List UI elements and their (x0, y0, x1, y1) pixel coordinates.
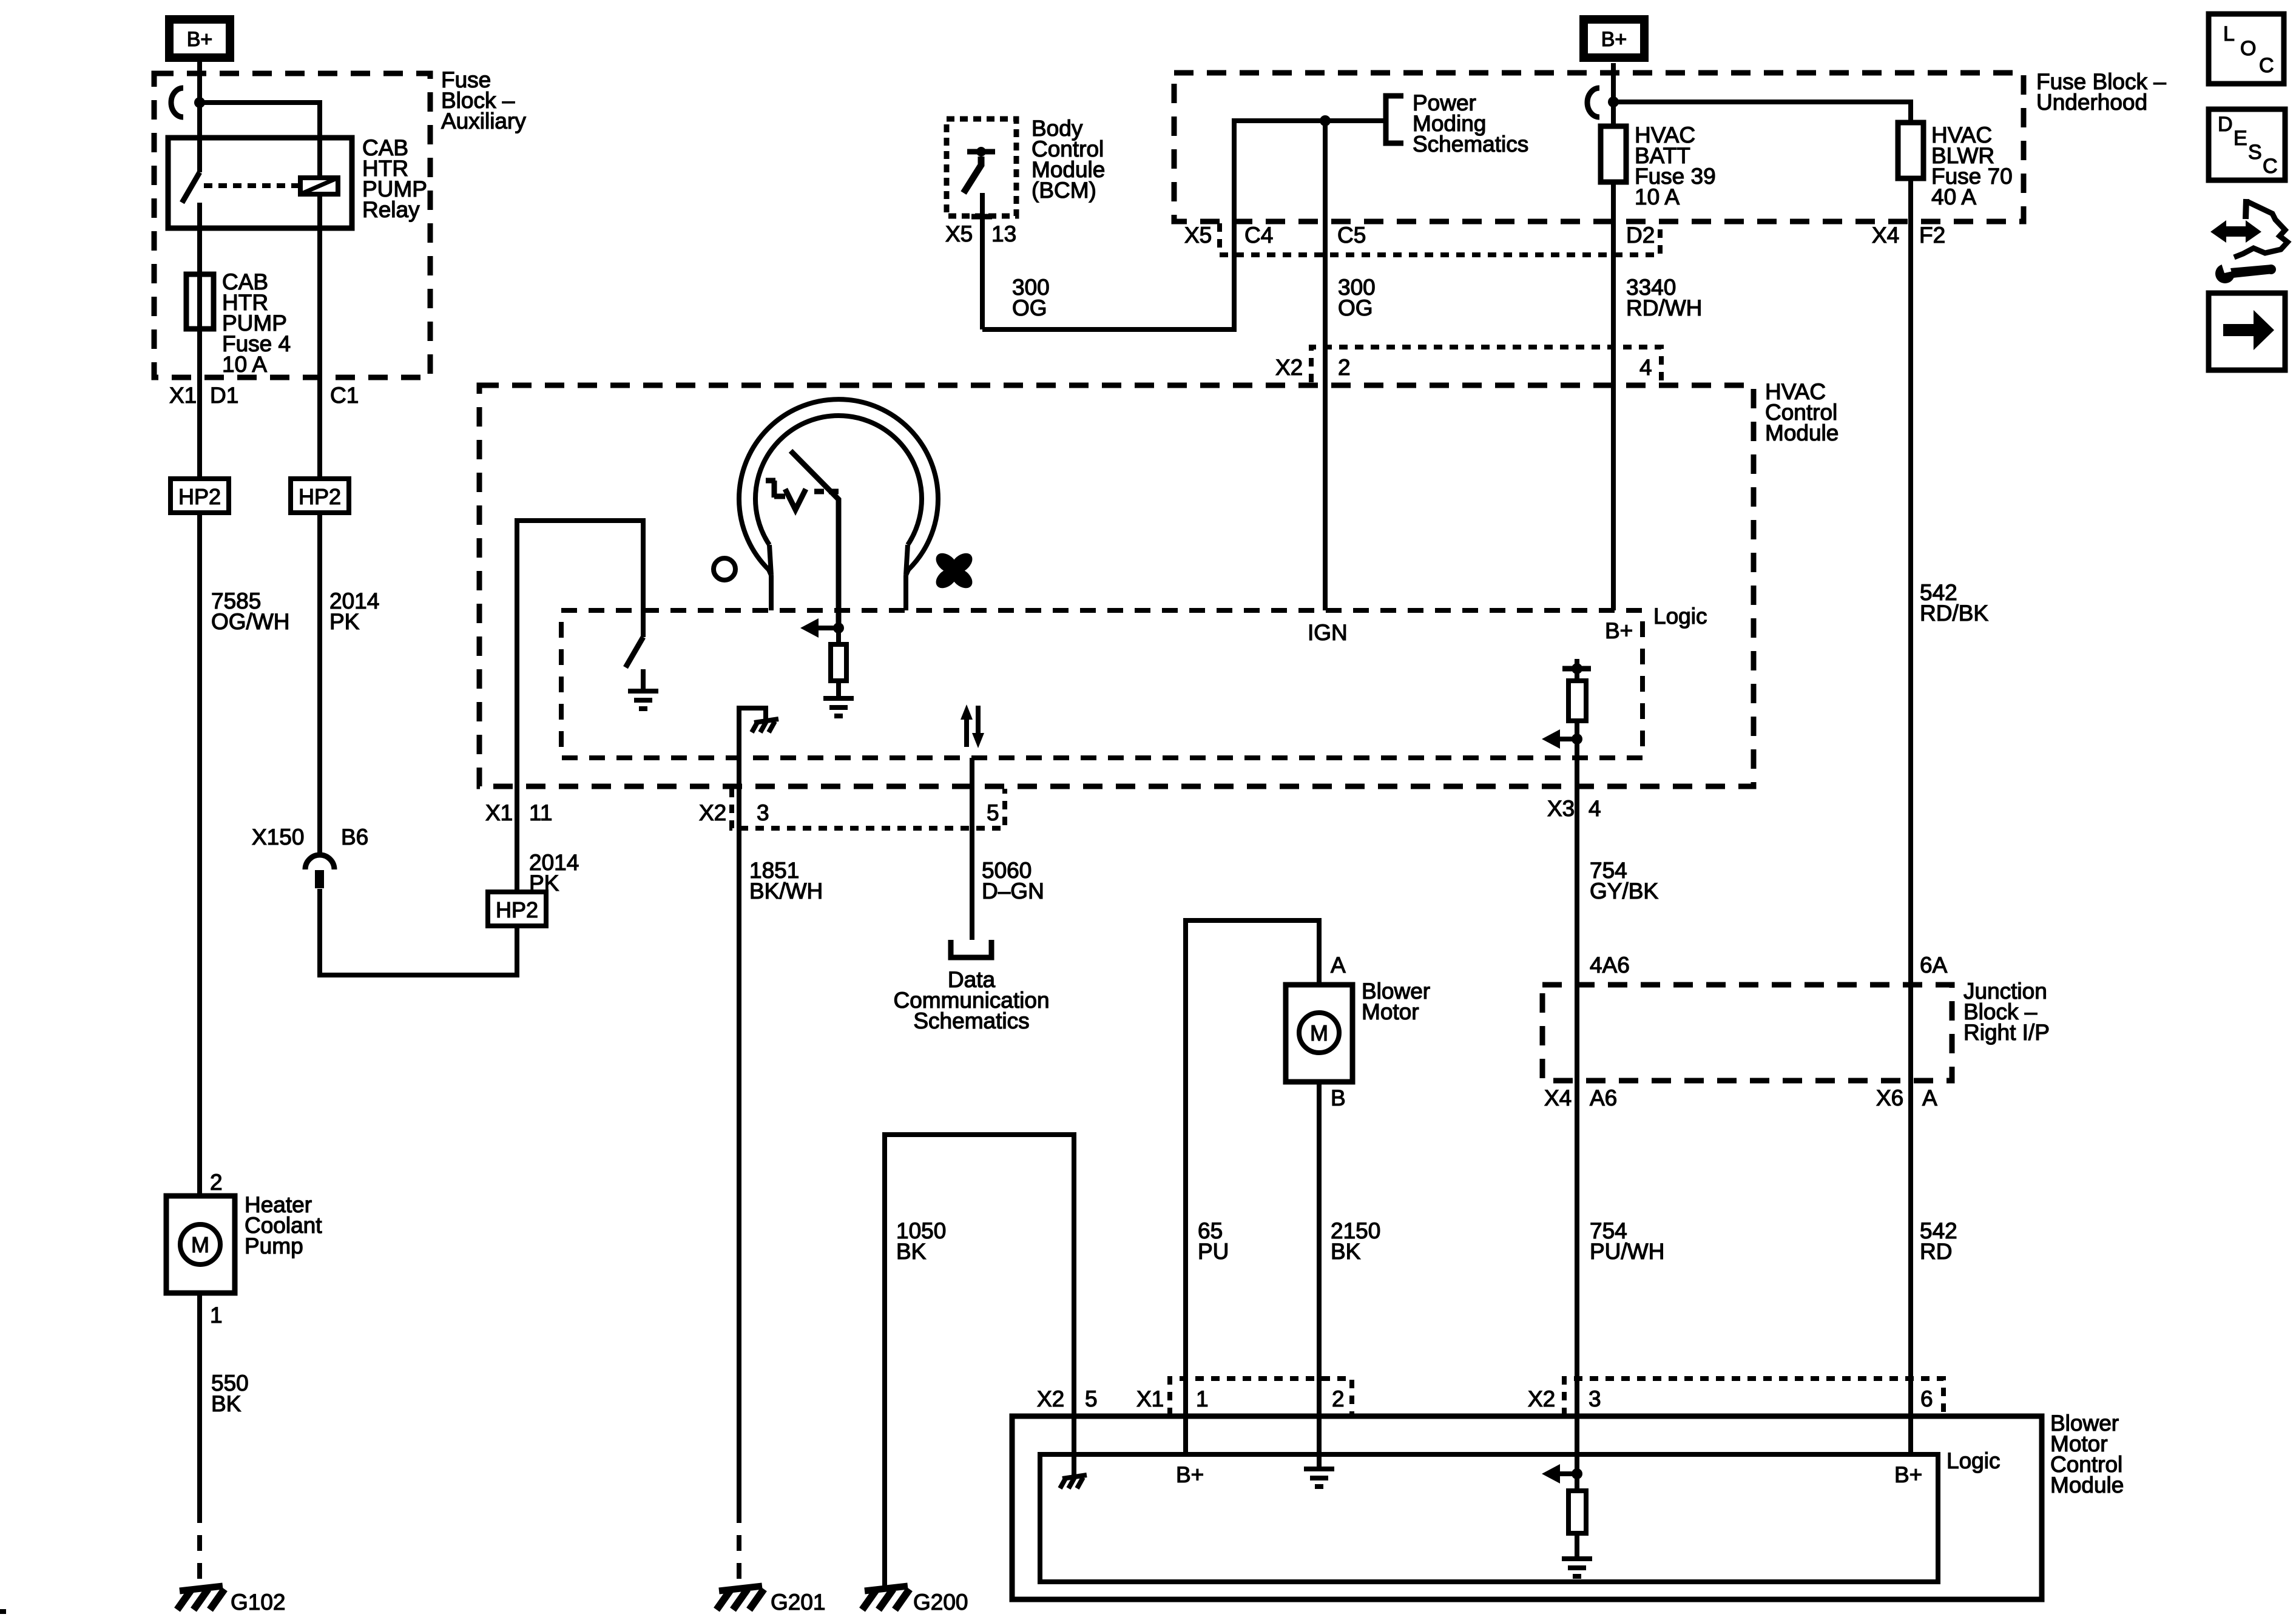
svg-text:10 A: 10 A (1635, 184, 1680, 209)
svg-text:(BCM): (BCM) (1032, 178, 1096, 203)
wire motor B to module pin 2 (1317, 1082, 1322, 1416)
splice HP2 (second) (291, 479, 349, 513)
BCM internal switch dot (976, 147, 986, 157)
svg-text:PK: PK (329, 609, 360, 634)
wire pump to ground dashed (197, 1507, 202, 1587)
internal wire X1-2 to ground (1317, 1416, 1322, 1469)
svg-text:HP2: HP2 (496, 897, 538, 922)
svg-text:X2: X2 (1528, 1386, 1555, 1411)
wire 5060 to data bracket (970, 758, 974, 940)
scan artifact dot (0, 1609, 6, 1614)
svg-text:Schematics: Schematics (913, 1008, 1029, 1033)
svg-text:Relay: Relay (362, 197, 420, 222)
svg-text:Underhood: Underhood (2036, 90, 2147, 115)
svg-text:X4: X4 (1872, 223, 1899, 248)
connector X5 dashed bracket (1220, 223, 1660, 255)
wire HP2 third to HVAC module pin X1-11 (515, 785, 519, 892)
junction block right I/P dashed box (1542, 985, 1952, 1081)
internal wire X2-5 to chassis ground (1072, 1416, 1076, 1476)
wire 754 junction block to module (1575, 985, 1579, 1474)
svg-text:RD: RD (1920, 1239, 1952, 1264)
svg-text:RD/WH: RD/WH (1626, 295, 1702, 320)
svg-text:B+: B+ (1605, 618, 1633, 643)
data down arrow (976, 706, 981, 734)
svg-text:OG: OG (1338, 295, 1373, 320)
BCM pin crossbar (971, 214, 992, 220)
icon wrench (2215, 260, 2276, 283)
svg-text:Logic: Logic (1653, 604, 1707, 629)
svg-text:A: A (1331, 953, 1346, 977)
svg-text:13: 13 (991, 221, 1016, 246)
wire resistor to X3-4 (1575, 721, 1579, 1081)
svg-text:S: S (2248, 141, 2262, 164)
svg-text:Right I/P: Right I/P (1963, 1020, 2050, 1045)
resistor (dial output) (836, 628, 841, 698)
resistor (module X2-3) (1568, 1491, 1586, 1533)
wire 1851 to G201 solid (737, 785, 741, 1507)
svg-text:X2: X2 (1275, 355, 1303, 380)
junction dot (fan speed signal) (1572, 734, 1582, 744)
dial detent glyph (766, 478, 775, 484)
icon hand with double arrow (2210, 220, 2261, 243)
svg-text:RD/BK: RD/BK (1920, 601, 1988, 626)
wire junction to relay coil (200, 103, 320, 179)
svg-text:Motor: Motor (1362, 999, 1419, 1024)
HVAC control module dashed box (479, 385, 1754, 786)
svg-text:M: M (1310, 1021, 1328, 1045)
wire X150 to HP2 third (320, 889, 517, 975)
wire HP2 to connector X150 (317, 513, 322, 856)
fuse HVAC BLWR Fuse 70 (1898, 123, 1923, 178)
svg-text:G102: G102 (231, 1590, 286, 1615)
internal switch blade (HVAC) (626, 637, 643, 667)
ground G200 (865, 1586, 908, 1591)
svg-text:BK: BK (896, 1239, 927, 1264)
switch to ground branch wire (517, 521, 643, 785)
svg-text:OG: OG (1012, 295, 1047, 320)
svg-text:BK: BK (1331, 1239, 1361, 1264)
power symbol B+ (left feed) (169, 19, 230, 58)
inline connector X150 B6 (305, 855, 334, 869)
circuit breaker arc (left B+ tap) (171, 88, 183, 117)
logic box (blower module) (1040, 1454, 1938, 1582)
power symbol B+ (right feed) (1584, 19, 1644, 58)
wire 1050 BK net (885, 1135, 1074, 1588)
wire junction to HVAC BLWR fuse (1613, 102, 1911, 985)
junction dot under dial (833, 623, 844, 633)
junction dot (module X2-3) (1572, 1468, 1582, 1479)
svg-text:A: A (1922, 1085, 1937, 1110)
svg-text:X4: X4 (1544, 1085, 1572, 1110)
svg-text:10 A: 10 A (222, 352, 267, 377)
svg-text:B+: B+ (1176, 1462, 1204, 1487)
junction dot at C5 feed (1320, 115, 1331, 126)
svg-text:OG/WH: OG/WH (211, 609, 289, 634)
svg-text:X1: X1 (169, 383, 197, 408)
pump motor circle M (180, 1224, 220, 1264)
blower switch dial outer arc (739, 399, 938, 570)
small chassis ground (module X2-5) (1062, 1475, 1087, 1479)
svg-text:PU: PU (1198, 1239, 1229, 1264)
svg-text:Logic: Logic (1947, 1448, 2000, 1473)
connector X1 dashed bracket (module) (1170, 1379, 1352, 1416)
svg-text:X3: X3 (1547, 796, 1575, 821)
svg-text:B+: B+ (187, 28, 213, 51)
pull-up junction dot (1572, 663, 1582, 674)
svg-text:4A6: 4A6 (1590, 953, 1630, 977)
dial O position circle (714, 558, 735, 580)
svg-text:Auxiliary: Auxiliary (441, 109, 526, 133)
pull-up resistor stub (HVAC logic) (1575, 659, 1579, 681)
relay CAB HTR PUMP box (168, 138, 352, 228)
connector X2 dashed bracket (HVAC top) (1311, 347, 1661, 382)
svg-text:B+: B+ (1894, 1462, 1922, 1487)
svg-text:PU/WH: PU/WH (1590, 1239, 1664, 1264)
bars ground (internal switch) (628, 689, 658, 694)
relay actuation dashed line (204, 183, 299, 188)
BCM internal switch bar (967, 149, 995, 155)
internal switch ground stub (641, 669, 646, 691)
svg-text:X2: X2 (699, 800, 726, 825)
svg-text:PK: PK (529, 871, 559, 896)
fuse block underhood dashed box (1174, 73, 2024, 221)
relay switch blade (182, 172, 200, 203)
junction dot on right B+ wire (1608, 96, 1619, 107)
svg-text:X150: X150 (252, 825, 304, 849)
power moding bracket (1386, 96, 1403, 143)
heater coolant pump box (166, 1196, 235, 1293)
fuse CAB HTR PUMP Fuse 4 (186, 274, 214, 329)
wire 1851 to G201 dashed (737, 1507, 741, 1587)
dial right leg (903, 575, 908, 610)
svg-text:B6: B6 (341, 825, 368, 849)
wire relay to fuse 4 and pin D1 (197, 203, 202, 382)
svg-text:Module: Module (2050, 1473, 2124, 1497)
svg-text:G201: G201 (771, 1590, 826, 1615)
svg-text:X5: X5 (1184, 223, 1212, 248)
wire C5 to HVAC module IGN (1323, 121, 1328, 610)
relay coil box (300, 178, 338, 194)
icon LOC box (2209, 14, 2284, 84)
svg-text:1: 1 (210, 1303, 223, 1328)
svg-text:D1: D1 (210, 383, 238, 408)
blower motor circle M (1299, 1013, 1339, 1053)
small chassis ground (HVAC) (754, 719, 778, 723)
svg-text:BK: BK (211, 1391, 241, 1416)
splice HP2 (left) (171, 479, 229, 513)
svg-text:B+: B+ (1601, 28, 1627, 51)
wire D1 to HP2 splice (197, 382, 202, 479)
dial left leg (769, 575, 774, 610)
svg-text:6: 6 (1920, 1386, 1933, 1411)
svg-text:IGN: IGN (1308, 620, 1348, 645)
arrow left (module X2-3) (1556, 1471, 1577, 1476)
arrow left (fan speed signal) (1556, 737, 1577, 741)
pull-up T bar (1562, 666, 1591, 672)
svg-text:HP2: HP2 (178, 484, 221, 509)
internal wire X2-6 B+ (1908, 1416, 1913, 1454)
svg-text:5: 5 (1085, 1386, 1098, 1411)
connector X2 dashed bracket (module) (1564, 1379, 1943, 1416)
wire HP2 to heater coolant pump pin 2 (197, 513, 202, 1196)
pull-up resistor (HVAC logic) (1568, 681, 1586, 721)
svg-text:5: 5 (987, 800, 999, 825)
svg-text:C5: C5 (1337, 223, 1366, 248)
bars ground (module X1-2) (1304, 1467, 1334, 1471)
BCM internal switch blade (964, 157, 981, 193)
svg-text:6A: 6A (1920, 953, 1948, 977)
svg-text:C1: C1 (330, 383, 359, 408)
svg-text:40 A: 40 A (1931, 184, 1976, 209)
svg-text:O: O (2240, 37, 2256, 60)
svg-text:3: 3 (757, 800, 769, 825)
svg-text:C4: C4 (1244, 223, 1273, 248)
icon DESC box (2209, 109, 2285, 180)
svg-text:3: 3 (1589, 1386, 1601, 1411)
circuit breaker arc (right B+ tap) (1587, 88, 1599, 117)
svg-text:B: B (1331, 1085, 1346, 1110)
wire BCM pin X5-13 (980, 193, 985, 329)
svg-text:D–GN: D–GN (982, 879, 1044, 903)
ground G102 (180, 1586, 223, 1591)
svg-text:C: C (2263, 155, 2278, 178)
splice HP2 (third) (488, 892, 546, 926)
dial pointer (791, 451, 839, 628)
svg-text:4: 4 (1639, 355, 1652, 380)
svg-text:L: L (2223, 22, 2235, 46)
svg-text:2: 2 (1332, 1386, 1345, 1411)
junction dot on left B+ wire (194, 97, 205, 108)
svg-text:2: 2 (210, 1170, 223, 1195)
dial left funnel (769, 545, 771, 575)
svg-text:1: 1 (1196, 1386, 1209, 1411)
svg-text:F2: F2 (1919, 223, 1945, 248)
svg-text:GY/BK: GY/BK (1590, 879, 1658, 903)
svg-text:Schematics: Schematics (1413, 132, 1528, 157)
svg-text:Module: Module (1765, 420, 1838, 445)
bars ground (module X2-3) (1562, 1556, 1592, 1561)
fuse block auxiliary dashed box (154, 73, 430, 377)
svg-text:E: E (2234, 127, 2247, 150)
svg-text:4: 4 (1589, 796, 1601, 821)
logic dashed box (HVAC) (561, 610, 1643, 758)
connector X2 dashed bracket (HVAC bottom) (732, 789, 1005, 828)
internal wire X1-1 B+ (1183, 1416, 1188, 1454)
blower motor box (1286, 985, 1352, 1082)
svg-text:C: C (2259, 54, 2274, 77)
fuse HVAC BATT Fuse 39 (1601, 126, 1626, 182)
body control module dashed box (947, 119, 1016, 216)
arrow left (blower feedback) (815, 626, 839, 630)
wire BCM to fuse block C4 (982, 121, 1384, 329)
svg-text:D2: D2 (1626, 223, 1655, 248)
svg-text:Pump: Pump (245, 1234, 303, 1258)
bars ground (dial resistor) (823, 696, 854, 701)
blower switch dial inner arc (755, 416, 922, 545)
data communication bracket (951, 940, 991, 957)
svg-text:X5: X5 (945, 221, 973, 246)
data up arrow (964, 718, 969, 747)
wire B+ to relay switch (197, 62, 202, 172)
wire pump to ground solid (197, 1293, 202, 1507)
chassis ground branch (pin X2-3) (739, 708, 766, 785)
svg-text:G200: G200 (913, 1590, 968, 1615)
wire coil to C1 and HP2 second (317, 194, 322, 479)
svg-text:M: M (191, 1232, 209, 1257)
svg-text:A6: A6 (1590, 1085, 1617, 1110)
dial right funnel (906, 545, 908, 575)
blower motor control module box (1012, 1416, 2042, 1599)
icon arrow box (2209, 293, 2285, 370)
wire 65 PU motor feed (1186, 920, 1319, 1416)
wire 542 junction block to module (1908, 985, 1913, 1454)
fan icon (932, 549, 976, 592)
internal wire X2-3 resistor (1575, 1474, 1579, 1559)
svg-text:BK/WH: BK/WH (749, 879, 823, 903)
svg-text:X2: X2 (1037, 1386, 1064, 1411)
svg-text:X6: X6 (1876, 1085, 1903, 1110)
svg-text:X1: X1 (485, 800, 513, 825)
svg-text:HP2: HP2 (299, 484, 341, 509)
svg-text:X1: X1 (1136, 1386, 1164, 1411)
svg-text:11: 11 (529, 800, 552, 825)
svg-text:D: D (2218, 113, 2233, 136)
ground G201 (719, 1586, 762, 1591)
wire B+ to HVAC BATT fuse and module X2-4 (1611, 63, 1616, 610)
svg-text:2: 2 (1338, 355, 1351, 380)
